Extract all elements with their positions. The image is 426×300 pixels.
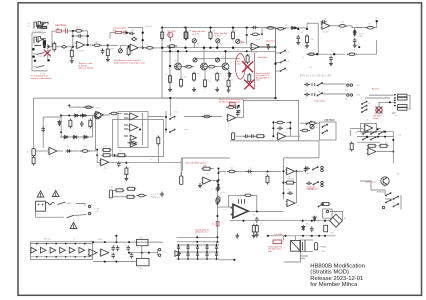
junction lower rail (34, 60, 36, 62)
foot switch contact d (393, 204, 399, 207)
comparator out ellipse (128, 142, 138, 145)
bank cap top 3 (196, 245, 199, 252)
lfo resistor series (80, 150, 90, 153)
supply electrolytic ES1 (216, 198, 219, 204)
feedback right rail (87, 31, 89, 45)
svg-text:fc: fc (137, 248, 138, 250)
bank junction top 1 (178, 244, 180, 246)
RB1 top stub (186, 28, 188, 31)
junction chain bottom 3 (55, 256, 57, 258)
svg-text:(rg): (rg) (345, 98, 348, 101)
junction chain bottom 2 (46, 256, 48, 258)
red capacitor C-gain (66, 29, 68, 34)
svg-text:FB7500: FB7500 (325, 118, 336, 122)
wire into U3 (307, 22, 318, 24)
input jack J1 extra rows (41, 26, 47, 28)
junction mix fb a (246, 26, 248, 28)
junction u8 out (125, 162, 127, 164)
junction right of cluster (47, 45, 50, 48)
junction U4 out (377, 128, 379, 130)
svg-text:Lab 100R: Lab 100R (274, 234, 283, 236)
svg-text:1/2 4558: 1/2 4558 (78, 51, 84, 53)
power corner box (323, 209, 333, 218)
fb subbox (320, 122, 337, 140)
ground Q1 (168, 87, 172, 92)
bank junction bottom 3 (197, 258, 199, 260)
staircase wire B (230, 141, 319, 158)
comparator inner box (118, 112, 148, 148)
junction fb2 right top (142, 32, 144, 34)
U1A output wire (85, 44, 93, 46)
delay in wire (244, 171, 281, 173)
op-amp U8 (100, 159, 109, 166)
junction Q1 coll (177, 50, 179, 52)
jack J1 top rail 2 (41, 23, 46, 25)
svg-text:36k: 36k (57, 28, 60, 30)
op-amp U11 delay (286, 168, 295, 175)
chain bottom rail (31, 256, 93, 258)
film cap C1 diamond on input wire (62, 45, 67, 48)
reg out cap (255, 217, 259, 223)
resistor below Q1 (169, 74, 172, 84)
wire up to output pin (375, 21, 376, 28)
inverter fb cap (277, 127, 283, 131)
svg-text:47k: 47k (76, 28, 79, 30)
inverter left rail (272, 121, 274, 136)
row2 switch contact (317, 93, 323, 96)
junction pw i (318, 235, 320, 237)
op-amp U3 output stage (321, 22, 330, 29)
trimmer pot VOL (118, 49, 122, 53)
bottom switch contact (318, 204, 324, 207)
df switch c (379, 131, 385, 134)
ground below R3 (106, 57, 110, 62)
svg-text:Signal level: Signal level (266, 41, 276, 43)
junction bus51 a (169, 50, 171, 52)
depth resistor RD2 box (126, 187, 136, 190)
junction sp i (115, 261, 117, 263)
switch SW3 lower row (37, 53, 45, 55)
BBD box right trunk (275, 28, 277, 99)
red resistor R-comp (116, 31, 122, 33)
junction sup d (216, 236, 218, 238)
fb switch s1 (322, 124, 328, 127)
svg-text:C945: C945 (174, 61, 178, 63)
wire battery to frame (300, 256, 308, 258)
wire R1 to diamond (56, 46, 61, 48)
op-amp U15 inverter (277, 133, 286, 140)
volume resistor R3 vertical (106, 47, 109, 57)
vertical pot P2 (127, 46, 130, 56)
input jack J1 tip bracket (38, 22, 41, 28)
svg-text:2.2u: 2.2u (164, 52, 167, 54)
junction pw e (267, 235, 269, 237)
df bottom wire (377, 151, 393, 153)
buffer stage triangle B6 (79, 247, 85, 253)
resistor R22 series (365, 26, 375, 29)
svg-text:10u: 10u (285, 25, 288, 27)
jack circle row3 b (321, 169, 323, 171)
junction q9 node (389, 101, 391, 103)
clk row wire 3 (215, 66, 223, 68)
junction left rail A (32, 48, 35, 51)
op-amp U6 LFO (48, 147, 57, 154)
df top wire (357, 131, 393, 133)
junction pw j (324, 235, 326, 237)
svg-text:10k: 10k (220, 73, 223, 75)
wire mains to transformer (76, 204, 85, 206)
red wire marked trace (254, 53, 256, 89)
switch contact SW1a (38, 24, 44, 27)
wire C1 to opamp input (67, 46, 74, 48)
ground C18 (329, 61, 333, 66)
wire matrix down (169, 98, 171, 116)
depth wire bot (113, 196, 127, 198)
resistor Q3 base (216, 72, 219, 82)
comparator A3 (130, 135, 136, 140)
wire vol to pot (108, 44, 118, 46)
jack circle row4 a (321, 181, 323, 183)
bank junction top 4 (206, 244, 208, 246)
comparator A4 (130, 142, 136, 147)
red X on filter cap 2 (244, 80, 254, 90)
op-amp U1A (76, 41, 85, 48)
svg-text:Avoid cutout: Avoid cutout (308, 187, 319, 190)
depth ellipse (137, 194, 147, 197)
df vertical feed (350, 130, 352, 136)
svg-text:t. ab: t. ab (95, 210, 99, 213)
U2 out wire (259, 46, 266, 48)
delay fb resistor box (285, 181, 295, 184)
svg-text:D3: D3 (64, 140, 66, 142)
svg-text:9v: 9v (397, 174, 399, 176)
svg-text:(XX): (XX) (357, 85, 361, 87)
svg-text:LM1458: LM1458 (323, 32, 329, 34)
Q2 collector up (203, 48, 205, 63)
delay opamp left rail (283, 158, 285, 200)
svg-text:22k: 22k (230, 168, 233, 170)
junction sp d (128, 241, 130, 243)
speed pot body box OPT (137, 239, 149, 245)
junction df a (384, 131, 386, 133)
supply cap CS1 (216, 186, 220, 192)
fet block dots column (394, 94, 396, 96)
svg-text:33p: 33p (131, 30, 134, 32)
resistor R21 series (337, 25, 347, 28)
lower row wire (33, 53, 36, 55)
row1 wire to jack (323, 83, 347, 85)
svg-text:fb1: fb1 (355, 133, 357, 135)
bank cap bottom 1 (177, 252, 180, 259)
ground reg mid (235, 233, 239, 238)
svg-text:9v: 9v (307, 173, 309, 175)
comparator A1 (129, 113, 138, 120)
df switch e (371, 137, 377, 140)
clk row wire 2 (201, 66, 208, 68)
svg-text:by: by (393, 203, 395, 205)
input jack J2 tip bracket (38, 37, 41, 44)
junction P2b bot (216, 47, 218, 49)
jack tip circle row2 b (350, 94, 352, 96)
svg-text:+10u: +10u (221, 192, 225, 194)
junction shaper m1 (60, 114, 62, 116)
svg-text:220: 220 (184, 77, 187, 79)
svg-text:dry: dry (286, 70, 288, 72)
junction reamp b (96, 154, 98, 156)
depth wire top (113, 189, 116, 191)
wire Rgain to Cgain (62, 30, 66, 32)
resistor Q2 emitter (204, 78, 207, 88)
cap CM1 vertical (117, 161, 121, 167)
jack row4 cap (306, 182, 312, 186)
mode switch SWM1 (280, 50, 286, 53)
svg-text:1k: 1k (261, 223, 263, 225)
bank junction top 5 (216, 244, 218, 246)
cap C20 inner (41, 127, 45, 133)
buffer stage triangle B1 (31, 247, 37, 253)
svg-text:w dep: w dep (109, 187, 113, 189)
junction dly a (282, 170, 284, 172)
junction bus y98 at trunk (169, 97, 171, 99)
svg-text:u OPT: u OPT (139, 237, 144, 239)
dly fb right a (295, 182, 297, 184)
svg-text:gb: gb (396, 115, 398, 117)
junction dly c (282, 192, 284, 194)
power diode DP1 (302, 225, 305, 231)
junction P2 top (127, 45, 129, 47)
speed box1 drop (141, 246, 143, 259)
trimmer P2b stub (217, 43, 219, 48)
buffer stage triangle B5 (69, 247, 75, 253)
wire lfo up link (95, 119, 97, 151)
bank cap top 5 (215, 245, 218, 252)
resistor RM1 box (102, 148, 112, 151)
bias trimmer P1 (192, 39, 196, 43)
svg-text:56k: 56k (119, 151, 122, 153)
coupling cap C3 (92, 44, 102, 47)
feedback cap C4 (129, 32, 135, 36)
mains switch SW-M (58, 202, 66, 205)
svg-text:v4: v4 (213, 242, 215, 244)
fb switch s3 (306, 121, 312, 124)
svg-text:D2: D2 (78, 112, 80, 114)
svg-text:BYM56C: BYM56C (377, 192, 385, 194)
junction lfo mid (68, 150, 70, 152)
svg-text:1u: 1u (249, 168, 251, 170)
electrolytic cap CE1 vertical (315, 243, 318, 251)
bias resistor RB2 (209, 30, 212, 40)
junction u11 out (295, 170, 297, 172)
fet ladder right rail (409, 96, 411, 110)
Q1 emitter down (180, 70, 182, 78)
comp wire left (110, 32, 116, 34)
polarized cap CP2 row1 (312, 83, 315, 86)
svg-text:10k: 10k (341, 22, 344, 24)
bus component ellipse (266, 27, 276, 30)
svg-text:1/2: 1/2 (131, 53, 133, 55)
bank junction mid 5 (216, 251, 218, 253)
svg-text:Invert TR 5800m polarity: Invert TR 5800m polarity (186, 162, 207, 165)
ground RP2 (252, 233, 256, 238)
svg-text:1u: 1u (211, 189, 213, 191)
q9 wire top (378, 102, 380, 107)
svg-text:v2: v2 (192, 242, 194, 244)
delay fb resistor RD5 (226, 106, 236, 109)
speed box2 C-dep (137, 258, 150, 265)
junction RB3 top (232, 26, 234, 28)
svg-text:1/2 4558: 1/2 4558 (251, 53, 257, 55)
bank buffer triangle (175, 251, 181, 257)
buffer stage triangle B3 (50, 247, 56, 253)
feedback wire right tail (357, 53, 377, 55)
jack row3 cap (304, 167, 310, 171)
relay box K1 (291, 241, 301, 252)
svg-text:100k: 100k (76, 27, 80, 29)
shaper bot wire y137 (60, 136, 93, 138)
chain top rail (31, 243, 93, 245)
op-amp U9 invert (202, 177, 211, 184)
junction Q2 coll (203, 47, 205, 49)
switch cluster vertical rail (165, 111, 167, 133)
matrix switch SWX1 (170, 116, 176, 119)
invert right rail (218, 169, 220, 185)
cap row right (83, 35, 88, 37)
wire fb tail up (376, 40, 378, 54)
red X delete mark on input switch (44, 50, 51, 57)
svg-text:N008: N008 (321, 251, 325, 253)
op-amp U4 in box (364, 124, 373, 131)
svg-text:Fixed breaker fixadditional co: Fixed breaker fixadditional core (195, 229, 209, 234)
junction reamp a (96, 149, 98, 151)
mode switch SWM3 (280, 68, 286, 71)
junction clk a (169, 50, 171, 52)
junction inv c (217, 179, 219, 181)
inverter input wire (236, 135, 243, 137)
junction R11 top (184, 26, 186, 28)
fb wire b (317, 122, 319, 124)
diode D5b vertical (58, 120, 61, 126)
bank junction mid 3 (197, 251, 199, 253)
junction shaper top (68, 104, 70, 106)
junction inv d (217, 184, 219, 186)
junction fb y54 a (316, 53, 318, 55)
delay out caps (304, 167, 308, 173)
shaper mid wire y115.5 (60, 115, 94, 117)
comp wire right (126, 32, 130, 34)
wire reamp left rail (97, 150, 100, 163)
svg-text:4558: 4558 (256, 39, 260, 41)
resistor shaper RV2 (89, 119, 92, 129)
junction inv b (217, 172, 219, 174)
bank rail top (177, 244, 219, 246)
junction under cluster (43, 46, 46, 49)
feedback bottom wire (309, 53, 346, 55)
delay fb cap row (287, 191, 293, 195)
svg-text:D1: D1 (58, 119, 60, 121)
svg-text:C828: C828 (96, 108, 100, 110)
small caps column (237, 111, 241, 113)
wire C5 to box (155, 47, 162, 49)
svg-text:C945: C945 (221, 57, 225, 59)
u7 link (118, 113, 122, 115)
cap C11 near Q1 (184, 65, 194, 68)
op-amp U1B (129, 44, 138, 51)
op-amp U12 delay2 (286, 199, 295, 206)
svg-text:MN3008: MN3008 (288, 179, 294, 181)
cap C12 between Q (207, 65, 217, 68)
fet resistor ladder R33 (398, 108, 408, 111)
delay fb cap CD1 (234, 105, 240, 109)
svg-text:97k: 97k (235, 31, 238, 33)
op-amp U10 (227, 114, 236, 121)
junction chain bottom 4 (65, 256, 67, 258)
bias trimmer P2b (216, 39, 220, 43)
inverter source connector (232, 133, 235, 140)
u13 out to right (262, 211, 284, 213)
svg-text:1k: 1k (212, 224, 214, 226)
foot switch contact c (393, 196, 399, 199)
svg-text:tip: tip (318, 90, 320, 93)
power bus y220.7 (230, 220, 330, 222)
input trunk vertical (47, 44, 49, 60)
mains lower wire (36, 211, 64, 217)
svg-text:x8: x8 (73, 239, 75, 241)
bank cap bottom 5 (215, 252, 218, 259)
wire RX down (157, 146, 159, 154)
wire bundle horizontal (158, 158, 230, 163)
junction invm a (272, 121, 274, 123)
buffer chain box (31, 242, 93, 260)
red X over Q9 (376, 107, 383, 114)
junction sup e (216, 241, 218, 243)
junction node fb left top (72, 30, 74, 32)
junction bus y98 right (274, 97, 276, 99)
diode D1 series (290, 26, 296, 29)
junction shaper m3 (80, 114, 82, 116)
diode D8 row2 (83, 135, 89, 138)
foot switch rail (385, 185, 401, 209)
transformer primary circle a (88, 205, 90, 207)
mains lower wire2 (75, 215, 87, 216)
junction u13 out (256, 210, 258, 212)
junction reamp c (113, 154, 115, 156)
bank junction bottom 2 (187, 258, 189, 260)
junction pw a (242, 220, 244, 222)
svg-text:PWDS: PWDS (321, 247, 328, 249)
svg-text:1/2: 1/2 (279, 142, 281, 144)
invert resistor RI1 box (202, 167, 212, 170)
fet block bottom wire (392, 112, 396, 114)
speed cap c4 (126, 245, 130, 251)
diode D4 row1 (81, 114, 87, 117)
wire U4 out (377, 127, 381, 129)
bank rail bottom (177, 258, 219, 260)
junction out node a (297, 28, 299, 30)
svg-text:LM324: LM324 (98, 239, 103, 241)
wire reg minus (217, 206, 232, 208)
row4 switch contact (313, 182, 319, 185)
junction U1A out (87, 44, 89, 46)
junction RB3 bot (232, 47, 234, 49)
junction delay fb (238, 105, 240, 107)
diode D2 vertical (353, 31, 356, 37)
svg-text:n: n (60, 220, 61, 222)
df switch a (363, 131, 369, 134)
row3 switch contact (313, 167, 319, 170)
foot wire link (385, 198, 394, 200)
bank cap top 1 (177, 245, 180, 252)
red resistor RP3 (273, 240, 282, 244)
